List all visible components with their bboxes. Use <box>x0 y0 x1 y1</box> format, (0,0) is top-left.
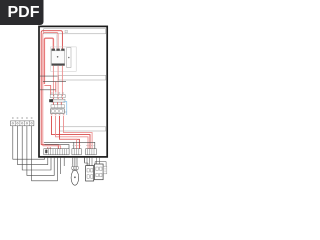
PDF badge <box>0 0 44 25</box>
wire F1 out T4 <box>64 116 93 149</box>
motor M1 <box>71 170 79 185</box>
wire L1 supply bus <box>41 31 62 145</box>
overload relay F1 <box>51 109 65 114</box>
wire L3 supply <box>44 38 53 84</box>
terminal block X1 labels <box>73 144 96 146</box>
wire control tap black 2 <box>43 80 66 82</box>
terminal block X1 group 1 <box>44 149 69 155</box>
junction box JB1 <box>86 166 94 181</box>
overload aux connection <box>64 111 66 113</box>
wire motor feed 2 <box>74 157 76 166</box>
wire neutral black run <box>44 142 95 148</box>
wire KM1 to terminals <box>53 102 61 105</box>
junction box JB2 <box>95 164 104 180</box>
wire X0-1 to panel <box>13 126 45 159</box>
wire spare stub a <box>60 157 62 174</box>
wire into contactor <box>53 98 62 100</box>
wire spare to junction <box>84 157 86 162</box>
wire X0-3 to panel <box>22 126 51 170</box>
wire left bus to group1 b <box>43 146 61 149</box>
wire control tap black <box>40 75 58 77</box>
svg-text:PDF: PDF <box>8 4 40 21</box>
wire QF1 to KM1 phase 2 <box>57 66 59 95</box>
band label chip <box>65 30 67 33</box>
wire control stub red 2 <box>55 81 57 92</box>
wire control stub red <box>44 86 50 95</box>
motor terminal lugs <box>72 167 78 170</box>
terminal strip above contactor <box>50 95 65 98</box>
wire F1 out T1 <box>52 116 91 149</box>
terminal block X1 group 2 <box>72 149 81 155</box>
wire neutral gray drop <box>56 34 58 48</box>
wire control tap black 3 <box>40 89 56 91</box>
wire motor feed 1 <box>72 157 74 166</box>
junction feed bracket 1 <box>84 157 88 165</box>
schematic page frame <box>39 26 107 157</box>
junction side attachment <box>103 166 106 174</box>
wire X0-4 to panel <box>27 126 54 176</box>
wire group2 feed red <box>60 139 77 148</box>
wire motor feed 3 <box>76 157 78 166</box>
wire X0-2 to panel <box>18 126 48 165</box>
mounting plate behind QF1 <box>51 47 77 71</box>
wire F1 out T3 <box>60 116 80 149</box>
circuit breaker QF1 top terminals <box>51 49 64 51</box>
circuit breaker QF1 body <box>51 51 64 64</box>
circuit breaker QF1 bottom terminals <box>51 64 64 66</box>
wire QF1 to KM1 phase 1 <box>52 66 54 95</box>
wire F1 out T2 <box>56 116 89 149</box>
wire lugs to motor <box>73 169 77 171</box>
overload output terminal marks <box>51 114 65 116</box>
wire spare stub b <box>63 157 65 166</box>
motor lug labels <box>72 164 78 166</box>
junction feed bracket 2 <box>95 162 106 167</box>
X0 labels <box>12 117 32 119</box>
wire L2 supply bus <box>43 33 58 146</box>
band strip middle <box>59 75 106 80</box>
terminal block X1 group 3 <box>86 149 97 155</box>
terminal row under contactor <box>51 105 65 108</box>
contactor KM1 <box>49 99 65 102</box>
wire X0-5 to panel <box>32 126 58 181</box>
wire group2 stub black <box>73 142 75 148</box>
wire KM1 coil A2 blue <box>64 102 67 116</box>
wire QF1 to KM1 phase 3 <box>61 66 63 95</box>
wire group3 to junction <box>87 157 100 165</box>
group1 red entry ticks <box>48 147 50 150</box>
external terminal block X0 <box>11 121 34 126</box>
wire earth run <box>45 145 70 149</box>
wire left bus to group1 a <box>41 145 58 149</box>
wiring duct band <box>60 127 106 131</box>
auxiliary contact block right of QF1 <box>67 48 71 68</box>
title band strip top <box>44 29 106 34</box>
terminal strip labels <box>51 92 64 94</box>
